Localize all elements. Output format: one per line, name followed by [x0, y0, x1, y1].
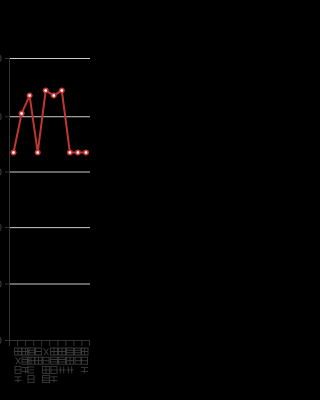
marker 6	[52, 93, 56, 97]
marker 5	[44, 88, 48, 92]
x-axis ticks	[10, 341, 90, 346]
x label column at 54.0	[51, 348, 58, 355]
marker 10	[84, 150, 88, 154]
x label column at 31.0	[28, 348, 35, 355]
x label column at 38.5	[36, 348, 42, 355]
gridline 3	[10, 171, 90, 173]
x label column at 84.5	[81, 348, 88, 355]
marker 3	[27, 93, 31, 97]
gridline 5	[10, 283, 90, 285]
series line	[14, 91, 87, 153]
gridline 2	[10, 116, 90, 118]
marker 4	[36, 150, 40, 154]
marker 1	[11, 150, 15, 154]
x label column at 18.0	[15, 348, 22, 355]
marker 8	[68, 150, 72, 154]
x label column at 25.5	[22, 348, 29, 355]
marker 2	[19, 111, 23, 115]
gridline 1	[10, 58, 90, 60]
gridline 4	[10, 227, 90, 229]
x label column at 46.0	[44, 348, 49, 355]
x label column at 70.0	[67, 348, 74, 355]
x-axis line	[10, 340, 91, 342]
marker 7	[60, 88, 64, 92]
x label column at 78.0	[75, 348, 82, 355]
x-axis labels (fake CJK glyph strokes)	[15, 348, 89, 383]
marker 9	[76, 150, 80, 154]
y-axis ticks	[5, 59, 10, 341]
y-axis label slivers (cut-off digits)	[0, 55, 2, 343]
y-axis line	[9, 58, 11, 341]
x label column at 62.0	[59, 348, 66, 355]
